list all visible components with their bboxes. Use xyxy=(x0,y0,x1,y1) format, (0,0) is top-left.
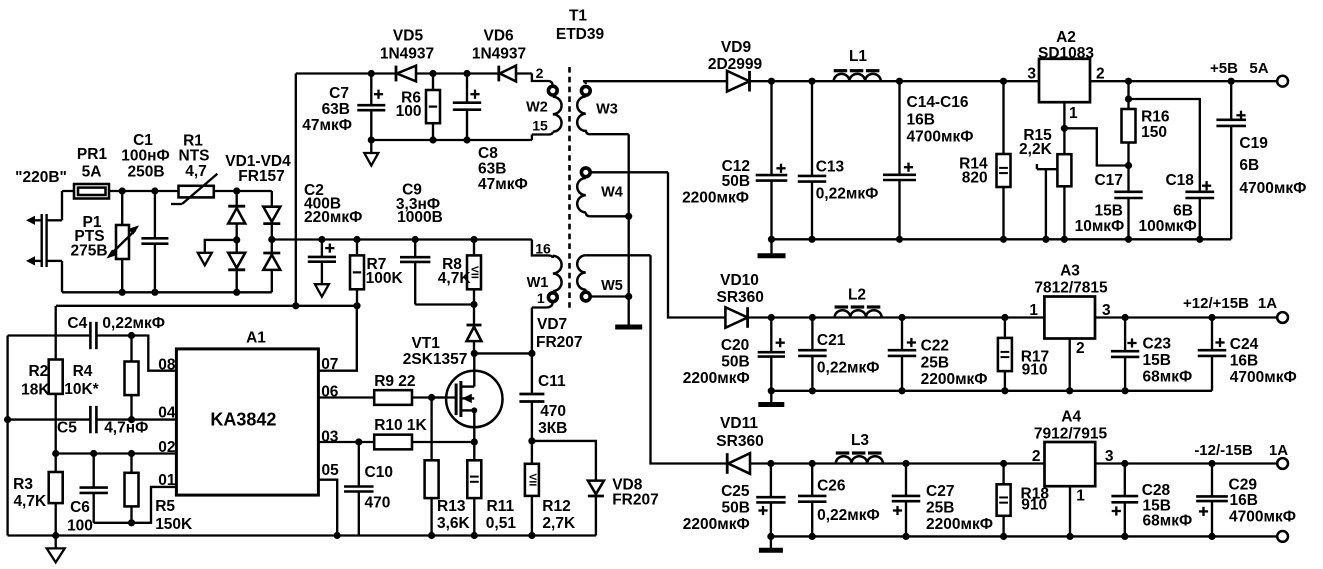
svg-text:63В: 63В xyxy=(322,101,350,118)
resistor R17 xyxy=(998,318,1012,391)
label W1 pin 16 xyxy=(535,241,551,257)
svg-text:16В: 16В xyxy=(1230,353,1258,370)
IC A4 7912/7915 xyxy=(1045,442,1096,486)
label C8 plus xyxy=(470,90,479,99)
svg-text:3КВ: 3КВ xyxy=(538,420,567,437)
svg-text:T1: T1 xyxy=(569,8,587,25)
svg-text:3,6K: 3,6K xyxy=(437,515,471,532)
svg-text:A3: A3 xyxy=(1060,263,1080,280)
svg-text:R3: R3 xyxy=(13,476,33,493)
label C14 plus xyxy=(904,163,913,172)
svg-text:+5В: +5В xyxy=(1210,60,1238,77)
label VD1-VD4 xyxy=(225,153,291,185)
wire -12V out xyxy=(1095,462,1277,464)
transistor VT1 xyxy=(432,353,503,442)
label R9 xyxy=(374,373,415,390)
label C28 xyxy=(1142,482,1193,530)
svg-text:C19: C19 xyxy=(1239,135,1268,152)
svg-text:910: 910 xyxy=(1022,361,1048,378)
svg-text:W2: W2 xyxy=(526,100,548,116)
node C25 top junction xyxy=(767,460,774,467)
wire pin03 xyxy=(318,441,374,443)
wire A4 pin1 xyxy=(1069,486,1071,536)
svg-text:5А: 5А xyxy=(1249,60,1268,77)
svg-text:2200мкФ: 2200мкФ xyxy=(921,371,988,388)
label C25 plus xyxy=(758,506,767,515)
capacitor C23 xyxy=(1111,318,1139,391)
label C18 plus xyxy=(1202,181,1211,190)
node C8 bottom junction xyxy=(463,136,470,143)
capacitor C9 xyxy=(400,240,430,305)
svg-text:25В: 25В xyxy=(926,499,954,516)
svg-text:VD5: VD5 xyxy=(393,28,424,45)
trimmer tap R15 xyxy=(1037,164,1058,239)
wire AC line top xyxy=(62,190,237,192)
node R6 top junction xyxy=(429,70,436,77)
node C20 top junction xyxy=(768,314,775,321)
node C1 bottom junction xyxy=(151,289,158,296)
svg-text:1А: 1А xyxy=(1269,442,1288,459)
label C29 plus xyxy=(1199,507,1208,516)
capacitor C2 xyxy=(308,240,336,285)
wire AC plug lower lead xyxy=(61,261,63,292)
terminal +12V output xyxy=(1277,312,1288,323)
label P1 xyxy=(70,214,107,260)
node C28 bottom junction xyxy=(1121,533,1128,540)
wire +12V rail xyxy=(748,316,1045,318)
node A3 pin2 junction xyxy=(1066,387,1073,394)
wire C9 bottom to R8 bottom xyxy=(415,303,474,305)
wire pin07 to Vcc xyxy=(318,306,356,371)
node R15 bottom junction xyxy=(1061,236,1068,243)
capacitor C4 xyxy=(8,322,132,349)
capacitor C24 xyxy=(1198,318,1227,391)
svg-text:10мкФ: 10мкФ xyxy=(1075,218,1125,235)
svg-text:2: 2 xyxy=(1096,66,1105,83)
svg-text:C20: C20 xyxy=(721,337,749,354)
node C22 bottom junction xyxy=(898,387,905,394)
diode VD4 xyxy=(263,253,280,270)
svg-text:1: 1 xyxy=(1029,302,1038,319)
label W2 pin 2 xyxy=(536,65,544,81)
svg-text:R10 1K: R10 1K xyxy=(374,417,427,434)
node C1 top junction xyxy=(151,187,158,194)
capacitor C1 xyxy=(141,191,168,292)
label C12 xyxy=(682,158,750,207)
svg-text:VD11: VD11 xyxy=(720,415,758,432)
resistor R6 xyxy=(426,74,440,141)
svg-text:0,51: 0,51 xyxy=(486,515,517,532)
ground C12 xyxy=(758,239,786,256)
label A4 pin 2 xyxy=(1032,448,1041,465)
winding W5 xyxy=(577,255,650,301)
label R13 xyxy=(437,498,471,532)
node R12 bottom junction xyxy=(528,532,535,539)
wire Vcc rail xyxy=(56,305,357,307)
node trimmer tap junction xyxy=(1042,236,1049,243)
label R16 xyxy=(1141,109,1170,142)
svg-text:6В: 6В xyxy=(1239,157,1259,174)
wire +12V ground rail xyxy=(771,390,1212,392)
svg-text:50В: 50В xyxy=(721,354,749,371)
node C8 top junction xyxy=(463,70,470,77)
svg-text:L3: L3 xyxy=(851,432,869,449)
svg-text:3: 3 xyxy=(1027,66,1036,83)
node C10 top junction xyxy=(355,438,362,445)
label A4 pin 1 xyxy=(1076,487,1085,504)
svg-text:2200мкФ: 2200мкФ xyxy=(682,190,749,207)
svg-text:47мкФ: 47мкФ xyxy=(302,117,352,134)
wire pin08 xyxy=(132,336,177,371)
svg-text:4700мкФ: 4700мкФ xyxy=(1230,369,1297,386)
inductor L1 xyxy=(834,71,881,82)
svg-text:VD10: VD10 xyxy=(720,272,759,289)
resistor R5 xyxy=(125,454,139,523)
wire bridge minus to ground xyxy=(205,240,237,253)
label R12 xyxy=(542,498,576,532)
svg-text:KA3842: KA3842 xyxy=(210,410,276,430)
svg-text:1: 1 xyxy=(1076,487,1085,504)
svg-text:R16: R16 xyxy=(1141,109,1170,126)
ground bridge minus xyxy=(198,253,212,265)
ground C7 xyxy=(364,140,378,166)
svg-text:1А: 1А xyxy=(1258,295,1277,312)
inductor L2 xyxy=(835,307,882,318)
svg-text:C7: C7 xyxy=(329,85,349,102)
ground C25 xyxy=(759,536,783,550)
label W5 xyxy=(601,278,623,294)
label W1 xyxy=(527,275,549,291)
label A2 pin 3 xyxy=(1027,66,1036,83)
node C29 bottom junction xyxy=(1208,533,1215,540)
wire secondary common xyxy=(628,134,630,327)
wire primary ground rail xyxy=(8,534,596,536)
wire common ground rail xyxy=(771,535,1277,537)
wire +5V rail xyxy=(750,80,1040,82)
capacitor C26 xyxy=(798,464,827,537)
svg-text:L1: L1 xyxy=(849,48,867,65)
svg-text:68мкФ: 68мкФ xyxy=(1143,369,1193,386)
svg-text:18K: 18K xyxy=(21,381,50,398)
wire pin04 xyxy=(8,406,177,433)
label R14 xyxy=(959,155,988,186)
node C7 bottom junction xyxy=(368,136,375,143)
svg-text:W4: W4 xyxy=(601,185,623,201)
capacitor C28 xyxy=(1111,464,1138,537)
resistor R10 xyxy=(374,435,474,450)
svg-text:2D2999: 2D2999 xyxy=(708,56,763,73)
label R11 xyxy=(486,498,517,532)
svg-text:R9 22: R9 22 xyxy=(374,373,415,390)
label W2 pin 15 xyxy=(532,118,548,134)
label R18 xyxy=(1021,485,1050,513)
node R11 bottom junction xyxy=(471,532,478,539)
svg-text:6В: 6В xyxy=(1173,202,1193,219)
node R18 bottom junction xyxy=(1000,533,1007,540)
wire +12V out xyxy=(1095,316,1277,318)
diode VD10 xyxy=(725,307,747,328)
svg-text:470: 470 xyxy=(540,403,566,420)
svg-text:15В: 15В xyxy=(1094,202,1122,219)
diode VD1 xyxy=(228,206,245,223)
terminal -12V output xyxy=(1277,458,1288,469)
winding W4 xyxy=(577,168,668,216)
resistor R3 xyxy=(49,454,63,536)
svg-text:R2: R2 xyxy=(28,363,48,380)
label A4 xyxy=(1034,408,1108,442)
transformer core xyxy=(568,67,571,309)
label T1 xyxy=(556,8,605,44)
svg-text:A2: A2 xyxy=(1056,29,1076,46)
svg-text:C10: C10 xyxy=(365,464,393,481)
label C7 xyxy=(302,85,352,134)
svg-text:FR207: FR207 xyxy=(612,492,659,509)
svg-text:08: 08 xyxy=(158,357,176,374)
node R8 top junction xyxy=(470,236,477,243)
capacitor C22 xyxy=(888,318,917,391)
label VD8 xyxy=(612,477,659,509)
resistor R12 xyxy=(525,441,539,536)
winding W1 xyxy=(532,240,562,354)
ground C20 xyxy=(758,391,784,405)
resistor R16 xyxy=(1122,99,1136,166)
svg-text:+12/+15В: +12/+15В xyxy=(1183,295,1249,312)
svg-text:2200мкФ: 2200мкФ xyxy=(683,516,750,533)
svg-text:0,22мкФ: 0,22мкФ xyxy=(817,360,880,377)
svg-text:0,22мкФ: 0,22мкФ xyxy=(816,186,879,203)
svg-text:4700мкФ: 4700мкФ xyxy=(1229,509,1296,526)
svg-text:L2: L2 xyxy=(848,287,866,304)
label A3 xyxy=(1034,263,1108,297)
svg-text:R11: R11 xyxy=(487,498,515,515)
svg-text:100нФ: 100нФ xyxy=(121,148,169,165)
label C29 xyxy=(1229,477,1296,526)
label A3 pin 3 xyxy=(1102,302,1111,319)
node bridge AC-bottom junction xyxy=(233,289,240,296)
capacitor C29 xyxy=(1196,464,1228,537)
capacitor C14-C16 xyxy=(883,81,916,239)
svg-text:R4: R4 xyxy=(73,363,93,380)
svg-text:1: 1 xyxy=(1069,105,1078,122)
svg-text:2200мкФ: 2200мкФ xyxy=(683,370,750,387)
svg-text:W3: W3 xyxy=(596,102,618,118)
node C2 top junction xyxy=(318,236,325,243)
wire -12V rail xyxy=(750,462,1045,464)
svg-text:0,22мкФ: 0,22мкФ xyxy=(102,315,165,332)
label R2 xyxy=(21,363,50,398)
label R1 xyxy=(179,133,210,181)
label C24 xyxy=(1230,336,1297,386)
svg-text:4,7: 4,7 xyxy=(185,163,207,180)
label R8 xyxy=(438,256,472,287)
label C10 xyxy=(365,464,393,512)
node drain junction xyxy=(471,350,478,357)
node gate junction xyxy=(428,394,435,401)
svg-text:2: 2 xyxy=(1076,340,1085,357)
resistor R7 xyxy=(350,240,364,306)
ground secondary common xyxy=(615,325,642,330)
node R14 bottom junction xyxy=(1000,236,1007,243)
wire W3 to VD9 xyxy=(583,80,727,82)
svg-text:C4: C4 xyxy=(67,315,87,332)
svg-text:C11: C11 xyxy=(538,373,566,390)
node C13 top junction xyxy=(808,78,815,85)
label A3 pin 2 xyxy=(1076,340,1085,357)
label R15 xyxy=(1019,127,1053,158)
label C22 plus xyxy=(907,338,916,347)
svg-text:C14-C16: C14-C16 xyxy=(907,94,969,111)
capacitor C10 xyxy=(344,442,374,536)
svg-text:16: 16 xyxy=(535,241,551,257)
label C19 xyxy=(1239,135,1306,197)
resistor R4 xyxy=(125,336,139,420)
diode VD9 xyxy=(727,71,750,92)
label A2 pin 1 xyxy=(1069,105,1078,122)
label C17 xyxy=(1075,172,1125,235)
label VD7 xyxy=(536,316,583,351)
label C7 plus xyxy=(374,90,383,99)
capacitor C13 xyxy=(798,81,827,239)
svg-text:2200мкФ: 2200мкФ xyxy=(926,516,993,533)
diode VD7 xyxy=(467,305,482,354)
svg-text:2: 2 xyxy=(1032,448,1041,465)
svg-text:FR157: FR157 xyxy=(238,168,285,185)
svg-text:63В: 63В xyxy=(478,161,506,178)
node C27 bottom junction xyxy=(902,533,909,540)
node C23 top junction xyxy=(1122,314,1129,321)
svg-text:C22: C22 xyxy=(921,337,949,354)
svg-text:VD7: VD7 xyxy=(537,316,567,333)
capacitor C27 xyxy=(892,464,921,537)
wire R16 top stub xyxy=(1127,81,1129,99)
capacitor C18 xyxy=(1185,192,1214,240)
node R4 bottom junction xyxy=(128,416,135,423)
svg-text:4,7K: 4,7K xyxy=(438,270,472,287)
node C29 top junction xyxy=(1208,460,1215,467)
node C14 bottom junction xyxy=(896,236,903,243)
label C12 plus xyxy=(776,164,785,173)
node C7 top junction xyxy=(368,70,375,77)
label W4 xyxy=(601,185,623,201)
svg-text:W5: W5 xyxy=(601,278,623,294)
wire pin02 xyxy=(56,452,177,454)
resistor R15 xyxy=(1057,128,1071,239)
wire drain to clamp xyxy=(474,352,532,354)
label VT1 xyxy=(403,335,468,368)
label R6 xyxy=(396,90,422,121)
node R16 top junction xyxy=(1125,95,1132,102)
node W4 return junction xyxy=(625,213,632,220)
svg-text:2,2K: 2,2K xyxy=(1019,141,1053,158)
diode VD8 xyxy=(588,481,604,536)
label KA3842 xyxy=(210,410,276,430)
node bridge AC-top junction xyxy=(233,187,240,194)
node C28 top junction xyxy=(1121,460,1128,467)
node Vcc-snubber junction xyxy=(292,302,299,309)
svg-text:C5: C5 xyxy=(57,420,77,437)
label -12V 1A xyxy=(1194,442,1288,459)
label VD10 xyxy=(716,272,763,306)
svg-text:100K: 100K xyxy=(366,270,404,287)
label pin 02 xyxy=(158,439,175,456)
label C22 xyxy=(921,337,988,388)
wire aux top rail xyxy=(296,72,532,74)
IC A2 SD1083 xyxy=(1039,59,1090,102)
node C22 top junction xyxy=(898,314,905,321)
svg-text:2,7K: 2,7K xyxy=(542,515,576,532)
resistor R18 xyxy=(997,464,1011,537)
svg-text:275В: 275В xyxy=(70,243,107,260)
label L2 xyxy=(848,287,866,304)
label C14-C16 xyxy=(907,94,974,146)
label VD11 xyxy=(716,415,763,450)
svg-text:1000В: 1000В xyxy=(397,209,443,226)
label R5 xyxy=(155,498,193,533)
wire C11 to VD8 xyxy=(532,441,596,481)
wire pin06 xyxy=(318,396,374,398)
label C2 xyxy=(304,182,362,226)
label C13 xyxy=(816,158,879,202)
label W1 pin 1 xyxy=(537,290,545,306)
capacitor C11 xyxy=(519,353,544,441)
wire pin01 xyxy=(94,487,177,523)
resistor R9 xyxy=(374,390,456,405)
label +5V 5A xyxy=(1210,60,1269,77)
node R7 bottom junction xyxy=(353,302,360,309)
capacitor C25 xyxy=(756,464,785,537)
diode VD2 xyxy=(263,207,280,224)
svg-text:C13: C13 xyxy=(816,158,845,175)
thermistor R1 xyxy=(171,174,217,204)
svg-text:15: 15 xyxy=(532,118,548,134)
node R17 top junction xyxy=(1001,314,1008,321)
resistor R14 xyxy=(997,81,1011,239)
svg-text:R12: R12 xyxy=(542,498,570,515)
capacitor C7 xyxy=(357,74,385,141)
wire bridge top xyxy=(237,190,272,192)
node C14 top junction xyxy=(896,78,903,85)
label R3 xyxy=(13,476,47,510)
label C23 xyxy=(1143,336,1193,386)
svg-text:PR1: PR1 xyxy=(77,146,108,163)
node bridge plus junction xyxy=(268,236,275,243)
inductor L3 xyxy=(836,453,883,464)
label L1 xyxy=(849,48,867,65)
label R17 xyxy=(1021,349,1049,379)
resistor R2 xyxy=(49,306,63,454)
svg-text:7812/7815: 7812/7815 xyxy=(1034,279,1108,296)
label 220V xyxy=(15,169,67,186)
svg-text:C8: C8 xyxy=(478,145,498,162)
label C27 xyxy=(926,483,993,533)
label R7 xyxy=(366,256,404,287)
svg-text:47мкФ: 47мкФ xyxy=(478,176,528,193)
label W3 xyxy=(596,102,618,118)
node C13 bottom junction xyxy=(808,236,815,243)
svg-text:470: 470 xyxy=(365,495,391,512)
wire +5V out xyxy=(1090,80,1277,82)
node bridge minus junction xyxy=(233,236,240,243)
label A2 pin 2 xyxy=(1096,66,1105,83)
svg-text:1N4937: 1N4937 xyxy=(380,46,434,63)
node C17 bottom junction xyxy=(1125,236,1132,243)
node CT-ground junction xyxy=(4,416,11,423)
svg-text:VD6: VD6 xyxy=(484,28,515,45)
diode VD3 xyxy=(228,253,245,270)
node C27 top junction xyxy=(902,460,909,467)
svg-text:820: 820 xyxy=(962,170,988,187)
node C25 bottom junction xyxy=(767,533,774,540)
